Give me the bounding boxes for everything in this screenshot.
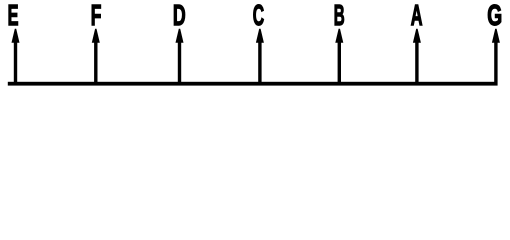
svg-text:C: C bbox=[253, 0, 265, 31]
arrow D (up-pointing from baseline) bbox=[176, 29, 184, 86]
wire baseline bbox=[8, 82, 498, 86]
arrow E (up-pointing from baseline) bbox=[12, 29, 20, 86]
svg-text:A: A bbox=[411, 0, 423, 31]
svg-text:B: B bbox=[334, 0, 345, 31]
arrow C (up-pointing from baseline) bbox=[256, 29, 264, 86]
svg-text:G: G bbox=[487, 1, 502, 33]
svg-text:D: D bbox=[173, 0, 186, 32]
svg-text:F: F bbox=[91, 1, 102, 32]
arrow B (up-pointing from baseline) bbox=[335, 29, 343, 86]
arrow F (up-pointing from baseline) bbox=[92, 29, 100, 86]
arrow A (up-pointing from baseline) bbox=[413, 29, 421, 86]
svg-text:E: E bbox=[8, 0, 19, 31]
arrow G (up-pointing from baseline) bbox=[492, 29, 500, 86]
